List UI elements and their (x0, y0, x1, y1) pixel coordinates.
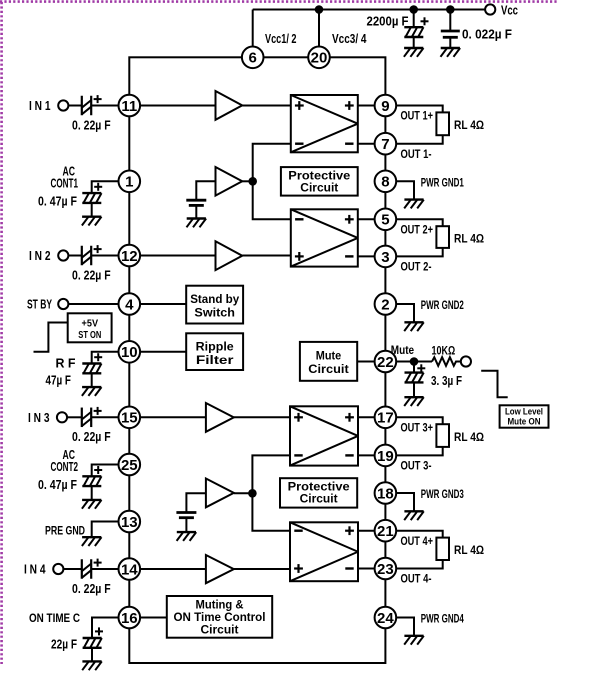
wire pin15 to buffer B1 (140, 416, 206, 418)
svg-text:11: 11 (121, 98, 137, 115)
pin 2 (375, 293, 397, 315)
pin 14 (119, 558, 141, 580)
wire pin14 to buffer B3 (140, 568, 206, 570)
plus 3.3uF (417, 364, 425, 372)
pin 6 (242, 47, 264, 69)
wire node A to amp2 inv (253, 181, 291, 219)
plus 0.47uF (CONT1) (94, 183, 102, 191)
capacitor CB (buffer B2) (176, 513, 196, 518)
svg-text:17: 17 (377, 410, 394, 427)
resistor RL ch1 (436, 112, 449, 135)
terminal mute (461, 356, 471, 366)
svg-text:5: 5 (381, 212, 389, 229)
pin 24 (375, 607, 397, 629)
svg-text:25: 25 (121, 457, 138, 474)
svg-text:10: 10 (121, 344, 138, 361)
svg-text:16: 16 (121, 610, 138, 627)
wire amp1 inv input (253, 144, 291, 182)
waveform mute step (481, 371, 508, 398)
svg-text:RL 4Ω: RL 4Ω (454, 233, 484, 245)
plus cap I N 1 (94, 95, 102, 103)
wire buffer B1 to amp3 (234, 416, 290, 418)
wire cap to pin (I N 2) (91, 255, 118, 257)
svg-text:OUT 4-: OUT 4- (401, 574, 432, 586)
wire I N 2 to cap (68, 255, 82, 257)
svg-text:I N 4: I N 4 (24, 563, 46, 577)
svg-text:R F: R F (56, 356, 76, 370)
svg-text:Vcc: Vcc (501, 3, 518, 17)
ground PRE GND (82, 537, 102, 546)
pin 13 (119, 511, 141, 533)
wire 47uF to ground (91, 373, 93, 387)
wire pin to 0.47uF (CONT1) (92, 181, 119, 193)
svg-text:ST ON: ST ON (78, 329, 101, 341)
svg-text:RL 4Ω: RL 4Ω (454, 432, 484, 444)
wire amp1 out- to pin7 (358, 143, 375, 145)
waveform ST ON step (34, 323, 68, 352)
wire pin to PWR GND2 (396, 304, 414, 322)
svg-text:Circuit: Circuit (308, 362, 348, 376)
svg-text:12: 12 (121, 248, 138, 265)
capacitor C5 2200uF (404, 27, 423, 37)
wire buffer B2 out to node B (234, 492, 253, 494)
svg-text:3. 3µ F: 3. 3µ F (431, 374, 462, 388)
svg-text:Circuit: Circuit (300, 492, 338, 506)
wire C6 to ground (449, 37, 451, 48)
svg-text:OUT 4+: OUT 4+ (401, 536, 434, 548)
svg-text:I N 1: I N 1 (29, 99, 51, 113)
plus C5 (421, 17, 429, 25)
svg-text:7: 7 (381, 136, 389, 153)
wire pin6 stub (252, 10, 254, 47)
pin 1 (119, 171, 141, 193)
svg-text:PWR GND2: PWR GND2 (421, 300, 464, 312)
svg-text:2200µ F: 2200µ F (367, 15, 409, 29)
svg-text:9: 9 (381, 98, 389, 115)
wire RL to pin bottom (ch1) (396, 135, 443, 144)
svg-text:RL 4Ω: RL 4Ω (454, 120, 484, 132)
wire cap to pin (I N 1) (91, 105, 118, 107)
wire amp2 out+ to pin5 (358, 218, 375, 220)
wire pin to RL top (ch2) (396, 219, 443, 226)
wire cap to pin (I N 3) (91, 416, 118, 418)
box Low Level Mute ON (500, 405, 549, 427)
pin 5 (375, 209, 397, 231)
capacitor 0.47uF (CONT1) (82, 193, 101, 203)
op-amp AMP3 (ch3) (290, 406, 358, 465)
box Mute Circuit (300, 342, 357, 381)
ground PWR GND3 (404, 511, 424, 520)
svg-text:47µ F: 47µ F (46, 373, 72, 387)
wire buffer A2 input (196, 181, 215, 200)
svg-text:20: 20 (311, 50, 328, 67)
wire cap to pin (I N 4) (91, 568, 118, 570)
buffer B3 (IN4) (206, 555, 234, 583)
wire pin16 to 22uF (92, 618, 119, 639)
wire amp4 out- to pin23 (358, 568, 375, 570)
svg-text:0. 22µ F: 0. 22µ F (72, 268, 111, 282)
svg-text:Circuit: Circuit (201, 623, 239, 637)
wire pin20 stub (318, 10, 320, 47)
plus 22uF (95, 627, 103, 635)
capacitor C5 2200uF lead (413, 10, 415, 28)
wire RL to pin bottom (ch2) (396, 248, 443, 257)
wire pin11 to buffer A1 (140, 105, 215, 107)
svg-text:13: 13 (121, 514, 138, 531)
wire pin12 to buffer A3 (140, 255, 215, 257)
wire RL to pin bottom (ch3) (396, 447, 443, 456)
wire pin10 to ripple box (140, 351, 186, 353)
svg-text:Mute: Mute (316, 348, 342, 362)
wire CA to ground (195, 205, 197, 218)
terminal Vcc (485, 4, 495, 14)
buffer A2 (feedback) (216, 167, 243, 196)
junction 2200uF (409, 5, 418, 14)
svg-text:RL 4Ω: RL 4Ω (454, 545, 484, 557)
plus 0.47uF (CONT2) (94, 466, 102, 474)
ground C6 (441, 48, 461, 57)
wire C5 to ground (413, 37, 415, 48)
ground C5 (404, 48, 424, 57)
svg-text:6: 6 (249, 50, 257, 67)
op-amp AMP4 (ch4) (290, 522, 358, 581)
wire buffer A3 to amp2 (242, 255, 291, 257)
ground 47uF (82, 387, 102, 396)
svg-text:CONT1: CONT1 (51, 177, 79, 191)
capacitor CA (buffer A2) (186, 200, 206, 205)
box Protective Circuit B (280, 478, 357, 507)
capacitor I N 3 0.22uF (82, 408, 91, 428)
pin 11 (119, 95, 141, 117)
svg-text:Circuit: Circuit (300, 181, 338, 195)
wire pin13 to ground (92, 522, 119, 538)
svg-text:Ripple: Ripple (196, 340, 234, 354)
svg-text:24: 24 (377, 610, 394, 627)
wire buffer B2 input (186, 493, 206, 512)
box Protective Circuit A (281, 167, 358, 196)
ground PWR GND1 (404, 200, 424, 209)
pin 21 (375, 520, 397, 542)
svg-text:0. 022µ F: 0. 022µ F (462, 28, 512, 42)
plus cap I N 3 (94, 407, 102, 415)
wire pin to RL top (ch1) (396, 106, 443, 113)
resistor 10K (432, 357, 461, 366)
wire amp3 inv input (252, 455, 290, 493)
box +5V ST ON (68, 313, 112, 342)
svg-text:ST BY: ST BY (27, 298, 52, 312)
svg-text:19: 19 (377, 448, 394, 465)
pin 9 (375, 95, 397, 117)
buffer A3 (IN2) (216, 241, 243, 270)
ground PWR GND4 (404, 636, 424, 645)
capacitor 0.47uF (CONT2) (82, 476, 101, 486)
wire pin to RL top (ch3) (396, 417, 443, 424)
svg-text:0. 22µ F: 0. 22µ F (72, 430, 111, 444)
junction 0.022uF (446, 5, 455, 14)
wire I N 1 to cap (68, 105, 82, 107)
junction node A (248, 177, 257, 186)
svg-text:PWR GND4: PWR GND4 (421, 614, 464, 626)
wire pin16 to muting box (140, 617, 167, 619)
svg-text:2: 2 (381, 296, 389, 313)
junction pin20 stub (315, 5, 324, 14)
ground PWR GND2 (404, 322, 424, 331)
plus cap I N 2 (94, 245, 102, 253)
svg-text:Mute ON: Mute ON (508, 416, 541, 427)
wire I N 3 to cap (67, 416, 82, 418)
svg-text:OUT 3+: OUT 3+ (401, 423, 434, 435)
svg-text:Filter: Filter (196, 353, 234, 367)
wire mute box to pin22 (357, 361, 374, 363)
wire amp2 out- to pin3 (358, 255, 375, 257)
wire pin to RL top (ch4) (396, 531, 443, 538)
junction node B (248, 489, 257, 498)
svg-text:PRE GND: PRE GND (45, 524, 85, 538)
pin 15 (119, 407, 141, 429)
svg-text:OUT 1+: OUT 1+ (401, 111, 434, 123)
capacitor 22uF (83, 638, 102, 648)
ground CA (187, 219, 207, 228)
svg-text:OUT 2-: OUT 2- (401, 262, 432, 274)
wire node B to amp4 inv (252, 493, 290, 530)
svg-text:18: 18 (377, 485, 394, 502)
svg-text:Vcc3/ 4: Vcc3/ 4 (332, 32, 367, 46)
svg-text:CONT2: CONT2 (51, 460, 79, 474)
wire 22uF to ground (91, 648, 93, 662)
wire CB to ground (185, 518, 187, 532)
junction mute node (410, 357, 419, 366)
capacitor I N 2 0.22uF (82, 246, 91, 266)
svg-text:22: 22 (377, 354, 394, 371)
pin 17 (375, 407, 397, 429)
svg-text:0. 47µ F: 0. 47µ F (38, 195, 77, 209)
wire ST BY to pin4 (68, 303, 118, 305)
wire buffer B3 to amp4 (234, 568, 290, 570)
svg-text:4: 4 (125, 296, 134, 313)
svg-text:I N 3: I N 3 (28, 411, 50, 425)
svg-text:Vcc1/ 2: Vcc1/ 2 (265, 32, 297, 46)
resistor RL ch2 (436, 226, 449, 248)
svg-text:PWR GND1: PWR GND1 (421, 177, 464, 189)
terminal I N 4 (53, 564, 63, 574)
wire 0.47uF to ground (CONT2) (91, 486, 93, 500)
svg-text:I N 2: I N 2 (29, 249, 51, 263)
box Muting and ON Time Control (167, 596, 272, 638)
wire 0.47uF to ground (CONT1) (91, 203, 93, 217)
pin 16 (119, 607, 141, 629)
pin 22 (375, 351, 397, 373)
wire I N 4 to cap (63, 568, 82, 570)
svg-text:15: 15 (121, 410, 138, 427)
pin 4 (119, 293, 141, 315)
wire pin to PWR GND4 (396, 618, 414, 636)
capacitor C6 0.022uF lead (449, 10, 451, 32)
capacitor 3.3uF (405, 373, 424, 383)
svg-text:Switch: Switch (194, 306, 235, 320)
pin 23 (375, 558, 397, 580)
svg-text:1: 1 (125, 174, 133, 191)
resistor RL ch4 (436, 538, 449, 560)
terminal I N 2 (58, 250, 68, 260)
plus 47uF (94, 353, 102, 361)
wire pin22 to resistor (396, 361, 432, 363)
wire pin to PWR GND3 (396, 493, 414, 511)
IC body outline (129, 57, 385, 663)
svg-text:+5V: +5V (82, 317, 99, 329)
pin 8 (375, 171, 397, 193)
terminal I N 1 (58, 100, 68, 110)
pin 10 (119, 341, 141, 363)
pin 12 (119, 245, 141, 267)
wire pin to PWR GND1 (396, 181, 414, 199)
svg-text:0. 22µ F: 0. 22µ F (72, 582, 111, 596)
op-amp AMP2 (ch2) (291, 209, 358, 266)
wire 3.3uF to ground (413, 382, 415, 397)
terminal I N 3 (57, 412, 67, 422)
buffer B1 (IN3) (206, 403, 234, 432)
wire mute node to 3.3uF (413, 362, 415, 373)
wire pin10 to 47uF (92, 352, 119, 364)
ground CB (177, 532, 197, 541)
svg-text:8: 8 (381, 174, 389, 191)
wire pin to 0.47uF (CONT2) (92, 465, 119, 477)
capacitor I N 4 0.22uF (82, 559, 91, 579)
svg-text:0. 22µ F: 0. 22µ F (72, 118, 111, 132)
resistor RL ch3 (436, 424, 449, 447)
svg-text:22µ F: 22µ F (51, 638, 77, 652)
svg-text:3: 3 (381, 249, 389, 266)
pin 20 (308, 47, 330, 69)
box Ripple Filter (186, 333, 243, 370)
svg-text:0. 47µ F: 0. 47µ F (38, 478, 77, 492)
wire amp3 out+ to pin17 (358, 416, 375, 418)
wire RL to pin bottom (ch4) (396, 560, 443, 569)
terminal ST BY (58, 299, 68, 309)
wire amp1 out+ to pin9 (358, 105, 375, 107)
pin 18 (375, 482, 397, 504)
op-amp AMP1 (ch1) (291, 95, 358, 152)
svg-text:ON TIME C: ON TIME C (29, 611, 80, 625)
svg-text:PWR GND3: PWR GND3 (421, 489, 464, 501)
svg-text:OUT 3-: OUT 3- (401, 461, 432, 473)
svg-text:OUT 1-: OUT 1- (401, 149, 432, 161)
svg-text:Stand by: Stand by (190, 292, 239, 306)
plus cap I N 4 (94, 559, 102, 567)
svg-text:23: 23 (377, 561, 394, 578)
ground 0.47uF (CONT2) (82, 500, 102, 509)
wire amp3 out- to pin19 (358, 454, 375, 456)
svg-text:21: 21 (377, 523, 394, 540)
svg-text:OUT 2+: OUT 2+ (401, 225, 434, 237)
pin 7 (375, 133, 397, 155)
wire buffer A1 to amp1 (242, 105, 291, 107)
svg-text:10KΩ: 10KΩ (432, 345, 456, 357)
pin 3 (375, 246, 397, 268)
buffer B2 (feedback) (206, 479, 234, 508)
wire amp4 out+ to pin21 (358, 530, 375, 532)
wire pin4 to standby box (140, 303, 186, 305)
svg-text:14: 14 (121, 561, 138, 578)
capacitor 47uF (82, 364, 101, 374)
buffer A1 (IN1) (216, 91, 243, 120)
box Stand by Switch (186, 286, 243, 324)
wire Vcc rail (253, 9, 485, 11)
wire buffer A2 out to node A (242, 180, 253, 182)
ground 3.3uF (404, 397, 424, 406)
pin 25 (119, 454, 141, 476)
capacitor I N 1 0.22uF (82, 96, 91, 116)
ground 0.47uF (CONT1) (82, 217, 102, 226)
ground 22uF (82, 661, 102, 670)
capacitor C6 0.022uF (441, 31, 460, 37)
pin 19 (375, 445, 397, 467)
